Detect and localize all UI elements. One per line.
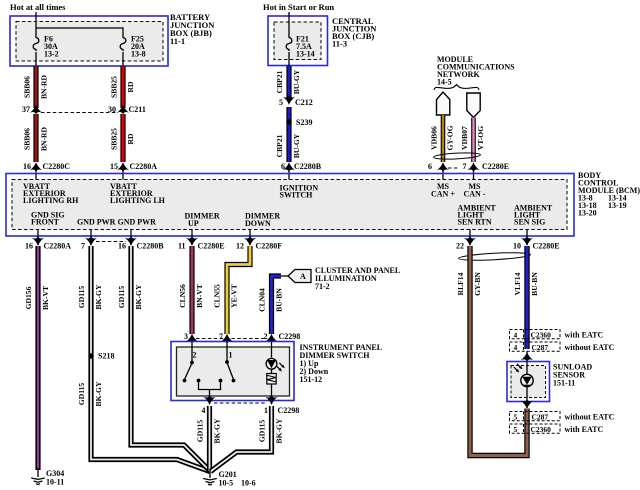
svg-text:BK-GY: BK-GY bbox=[94, 284, 103, 309]
wire to G304 bbox=[37, 468, 39, 477]
wire stub into BCM pin16 bbox=[35, 170, 37, 180]
svg-text:BK-VT: BK-VT bbox=[41, 286, 50, 310]
wire VLF14 BU-BN bbox=[524, 246, 529, 349]
svg-text:C212: C212 bbox=[295, 98, 313, 107]
central junction box (CJB) outer bbox=[268, 16, 328, 66]
stub pin4 bbox=[209, 396, 211, 404]
wire GD115 BK-GY a bbox=[91, 246, 210, 472]
svg-text:S239: S239 bbox=[296, 118, 312, 127]
svg-text:VT-OG: VT-OG bbox=[476, 126, 485, 150]
svg-text:C2280E: C2280E bbox=[198, 242, 225, 251]
svg-text:16: 16 bbox=[118, 242, 126, 251]
svg-text:13-2: 13-2 bbox=[44, 50, 59, 59]
wire resistor to pin1 bbox=[271, 384, 273, 396]
svg-text:4: 4 bbox=[514, 330, 518, 339]
svg-text:1: 1 bbox=[264, 406, 268, 415]
svg-text:7: 7 bbox=[81, 242, 85, 251]
connector C2280B dashed line bottom bbox=[96, 241, 126, 243]
connector arrow C2280C bbox=[30, 162, 42, 172]
brace bbox=[434, 85, 479, 91]
svg-text:FRONT: FRONT bbox=[31, 218, 60, 227]
svg-text:12: 12 bbox=[236, 242, 244, 251]
connector C211 dashed line bbox=[41, 112, 118, 114]
svg-text:11: 11 bbox=[178, 242, 186, 251]
connector arrow C2298 pin1 bbox=[265, 395, 277, 405]
svg-text:GD115: GD115 bbox=[77, 286, 86, 309]
connector arrow bottom DIMMER DOWN bbox=[244, 236, 256, 246]
svg-text:4: 4 bbox=[514, 343, 518, 352]
svg-text:13-19: 13-19 bbox=[608, 201, 627, 210]
svg-text:SEN RTN: SEN RTN bbox=[458, 218, 492, 227]
svg-text:A: A bbox=[300, 272, 306, 281]
svg-text:LIGHTING RH: LIGHTING RH bbox=[23, 196, 79, 205]
svg-text:22: 22 bbox=[456, 242, 464, 251]
wire CLN04 BU-BN bbox=[272, 276, 282, 334]
wire VDB06 GY-OG bbox=[441, 115, 446, 162]
connector C2280E dashed line bbox=[448, 167, 459, 169]
wire to G201 bbox=[209, 470, 211, 478]
wire into sunload sensor bbox=[526, 351, 528, 361]
connector arrow C2298 pin3 bbox=[186, 334, 198, 344]
wire stub BCM bottom GND PWR1 bbox=[90, 230, 92, 246]
svg-text:SBB06: SBB06 bbox=[23, 128, 32, 150]
wire SBB25 RD upper bbox=[120, 66, 125, 108]
network connector VDB06 bbox=[437, 92, 450, 115]
wire below F25 bbox=[122, 52, 124, 66]
svg-text:RD: RD bbox=[126, 133, 135, 144]
wire lamp to resistor bbox=[271, 369, 273, 373]
svg-text:Hot in Start or Run: Hot in Start or Run bbox=[263, 2, 334, 12]
connector A cluster illumination bbox=[288, 270, 311, 283]
lead to illumination connector bbox=[281, 275, 288, 277]
svg-text:without EATC: without EATC bbox=[565, 343, 615, 352]
svg-text:151-12: 151-12 bbox=[300, 375, 323, 384]
svg-text:10: 10 bbox=[513, 242, 521, 251]
connector box 5 C2360 bbox=[510, 424, 561, 433]
wire stub BCM bottom AMB SIG bbox=[526, 230, 528, 246]
connector arrow C211 left bbox=[30, 105, 42, 115]
svg-text:6: 6 bbox=[428, 162, 432, 171]
connector arrow C212 bbox=[283, 95, 295, 105]
connector arrow bottom DIMMER UP bbox=[186, 236, 198, 246]
svg-text:VDB06: VDB06 bbox=[430, 126, 439, 150]
svg-text:3: 3 bbox=[184, 332, 188, 341]
svg-text:5: 5 bbox=[279, 98, 283, 107]
sunload sensor outer bbox=[507, 362, 550, 402]
svg-text:4: 4 bbox=[202, 406, 206, 415]
splice S239 bbox=[286, 119, 291, 124]
connector box 4 C287 bbox=[510, 342, 561, 351]
svg-text:C2280E: C2280E bbox=[533, 242, 560, 251]
svg-text:GND PWR: GND PWR bbox=[77, 218, 116, 227]
svg-text:DOWN: DOWN bbox=[245, 219, 271, 228]
svg-text:BK-GY: BK-GY bbox=[134, 284, 143, 309]
wire CBP21 BU-GY lower bbox=[286, 107, 291, 162]
connector arrow sunload top bbox=[521, 352, 533, 362]
wire stub BCM bottom GND PWR2 bbox=[130, 230, 132, 246]
wire stub into BCM pin15 bbox=[122, 170, 124, 180]
connector arrow bottom GND SIG bbox=[32, 236, 44, 246]
twisted pair ellipse ambient bbox=[458, 251, 530, 261]
wire sensor top bbox=[526, 362, 528, 375]
svg-text:C287: C287 bbox=[532, 412, 549, 421]
svg-text:CLN04: CLN04 bbox=[258, 288, 267, 312]
svg-text:16: 16 bbox=[25, 242, 33, 251]
svg-text:11-3: 11-3 bbox=[332, 39, 347, 49]
svg-text:BK-GY: BK-GY bbox=[275, 418, 284, 443]
wire below sensor bbox=[526, 402, 528, 409]
svg-text:7: 7 bbox=[219, 332, 223, 341]
wire stub BCM bottom GND SIG bbox=[37, 230, 39, 246]
svg-text:GND PWR: GND PWR bbox=[118, 218, 157, 227]
wire into lamp bbox=[271, 342, 273, 358]
wire SBB25 RD lower bbox=[120, 114, 125, 162]
svg-text:C287: C287 bbox=[532, 343, 549, 352]
svg-text:13-14: 13-14 bbox=[296, 50, 315, 59]
svg-text:C211: C211 bbox=[129, 105, 146, 114]
svg-text:C2360: C2360 bbox=[531, 330, 552, 339]
svg-text:C2360: C2360 bbox=[531, 425, 552, 434]
wire VDB07 VT-OG bbox=[471, 118, 476, 163]
svg-text:C2280A: C2280A bbox=[44, 242, 72, 251]
bracket path bbox=[199, 382, 221, 390]
svg-text:SWITCH: SWITCH bbox=[280, 191, 314, 200]
svg-text:14-5: 14-5 bbox=[437, 78, 452, 87]
svg-text:10-11: 10-11 bbox=[46, 478, 64, 487]
fuse F21 7.5A bbox=[286, 36, 292, 51]
svg-text:VLF14: VLF14 bbox=[513, 272, 522, 295]
svg-text:C2298: C2298 bbox=[279, 332, 301, 341]
svg-text:SEN SIG: SEN SIG bbox=[514, 218, 545, 227]
central junction box (CJB) inner dashed bbox=[274, 22, 321, 60]
svg-text:5: 5 bbox=[514, 412, 518, 421]
wire feed into BJB bbox=[35, 12, 37, 36]
svg-text:RLF14: RLF14 bbox=[456, 272, 465, 295]
svg-text:SBB25: SBB25 bbox=[110, 128, 119, 150]
connector arrow C211 right bbox=[117, 105, 129, 115]
svg-text:YE-VT: YE-VT bbox=[230, 284, 239, 308]
wire CBP21 BU-GY upper bbox=[286, 66, 291, 98]
svg-text:with EATC: with EATC bbox=[565, 425, 604, 434]
svg-text:10-6: 10-6 bbox=[241, 479, 256, 488]
connector arrow C2280E pin7 bbox=[467, 162, 479, 172]
svg-text:C2298: C2298 bbox=[278, 406, 300, 415]
wire GD115 BK-GY d bbox=[211, 406, 272, 472]
connector arrow bottom GND PWR1 bbox=[85, 236, 97, 246]
instrument panel dimmer switch inner bbox=[177, 347, 290, 396]
splice S218 bbox=[88, 353, 93, 358]
svg-text:30: 30 bbox=[108, 105, 116, 114]
wire RLF14 GY-BN bbox=[470, 246, 527, 456]
switch down contact bbox=[225, 360, 229, 364]
svg-text:BU-GY: BU-GY bbox=[292, 133, 301, 158]
svg-text:S218: S218 bbox=[98, 352, 114, 361]
wire stub CAN+ into BCM bbox=[442, 170, 444, 180]
body control module (BCM) outer bbox=[6, 174, 574, 237]
svg-text:C2280B: C2280B bbox=[294, 162, 322, 171]
wire GD156 BK-VT bbox=[35, 246, 40, 470]
svg-text:GD115: GD115 bbox=[77, 383, 86, 406]
battery junction box (BJB) inner dashed bbox=[16, 22, 163, 62]
svg-text:RD: RD bbox=[126, 81, 135, 92]
wire stub BCM bottom AMB RTN bbox=[469, 230, 471, 246]
svg-text:UP: UP bbox=[188, 219, 199, 228]
network connector VDB07 bbox=[467, 93, 480, 118]
svg-text:without EATC: without EATC bbox=[565, 413, 615, 422]
connector arrow sunload bottom bbox=[521, 399, 533, 409]
svg-text:CLN56: CLN56 bbox=[178, 284, 187, 308]
wire SBB06 BN-RD upper bbox=[33, 66, 38, 108]
svg-text:GY-BN: GY-BN bbox=[473, 272, 482, 296]
svg-text:BN-RD: BN-RD bbox=[39, 74, 48, 99]
svg-text:BU-BN: BU-BN bbox=[530, 272, 539, 296]
common bracket bbox=[197, 379, 201, 383]
wire BJB branch bbox=[36, 28, 123, 36]
wire stub CAN- into BCM bbox=[473, 170, 475, 180]
svg-text:2: 2 bbox=[264, 332, 268, 341]
svg-text:CAN +: CAN + bbox=[431, 190, 455, 199]
wire below F6 bbox=[35, 52, 37, 66]
svg-text:10-5: 10-5 bbox=[219, 479, 234, 488]
fuse F6 30A bbox=[33, 36, 39, 51]
wire GD115 BK-GY c bbox=[207, 406, 212, 471]
svg-text:VDB07: VDB07 bbox=[460, 126, 469, 150]
svg-text:GY-OG: GY-OG bbox=[446, 125, 455, 150]
svg-text:C2280B: C2280B bbox=[137, 242, 165, 251]
svg-text:13-8: 13-8 bbox=[131, 50, 146, 59]
svg-text:15: 15 bbox=[110, 162, 118, 171]
fuse F25 20A bbox=[120, 36, 126, 51]
connector arrow bottom AMB SIG bbox=[521, 236, 533, 246]
svg-text:CAN -: CAN - bbox=[464, 190, 486, 199]
connector box 5 C287 bbox=[510, 412, 561, 421]
svg-text:16: 16 bbox=[23, 162, 31, 171]
svg-text:11-1: 11-1 bbox=[170, 36, 185, 46]
wire sensor bottom bbox=[526, 387, 528, 402]
svg-text:GD115: GD115 bbox=[258, 420, 267, 443]
stub pin1 bbox=[271, 396, 273, 404]
svg-text:BN-VT: BN-VT bbox=[195, 284, 204, 308]
svg-text:LIGHTING LH: LIGHTING LH bbox=[110, 196, 166, 205]
instrument panel dimmer switch outer bbox=[171, 342, 294, 401]
connector arrow C2280E pin6 bbox=[437, 162, 449, 172]
svg-text:SBB06: SBB06 bbox=[23, 76, 32, 98]
svg-text:1: 1 bbox=[229, 351, 233, 360]
wire stub BCM bottom DIMMER UP bbox=[191, 230, 193, 246]
svg-text:GD156: GD156 bbox=[24, 286, 33, 309]
svg-text:BU-BN: BU-BN bbox=[275, 288, 284, 312]
wire stub BCM bottom DIMMER DOWN bbox=[249, 230, 251, 246]
svg-text:37: 37 bbox=[22, 105, 30, 114]
connector arrow C2280B bbox=[283, 162, 295, 172]
svg-text:2: 2 bbox=[193, 351, 197, 360]
svg-text:GD115: GD115 bbox=[196, 420, 205, 443]
svg-text:C2280C: C2280C bbox=[43, 162, 71, 171]
svg-text:CBP21: CBP21 bbox=[275, 134, 284, 157]
ground G304 bbox=[31, 478, 45, 485]
wire feed into CJB bbox=[288, 12, 290, 36]
wire into switch up bbox=[191, 342, 193, 363]
connector C2298 dashed line top bbox=[196, 338, 267, 340]
svg-text:BU-GY: BU-GY bbox=[292, 69, 301, 94]
svg-text:CLN55: CLN55 bbox=[213, 284, 222, 308]
svg-text:C2280A: C2280A bbox=[130, 162, 158, 171]
ground G201 bbox=[203, 479, 217, 486]
svg-text:C2280F: C2280F bbox=[256, 242, 283, 251]
svg-text:5: 5 bbox=[514, 425, 518, 434]
wire CLN55 YE-VT bbox=[227, 246, 250, 334]
svg-text:CBP21: CBP21 bbox=[275, 70, 284, 93]
connector C2298 dashed line bottom bbox=[214, 402, 266, 404]
bracket stub down bbox=[209, 390, 211, 397]
body control module (BCM) inner dashed bbox=[12, 180, 567, 230]
twisted pair ellipse CAN bbox=[433, 152, 480, 160]
svg-text:BN-RD: BN-RD bbox=[39, 126, 48, 151]
wire CLN56 BN-VT bbox=[189, 246, 194, 334]
svg-text:BK-GY: BK-GY bbox=[213, 418, 222, 443]
svg-text:7: 7 bbox=[463, 162, 467, 171]
wire GD115 BK-GY b bbox=[131, 246, 210, 471]
svg-text:151-11: 151-11 bbox=[553, 379, 575, 388]
svg-text:Hot at all times: Hot at all times bbox=[10, 2, 66, 12]
battery junction box (BJB) outer bbox=[10, 16, 168, 66]
connector arrow C2280A bbox=[117, 162, 129, 172]
wire into switch down bbox=[226, 342, 228, 363]
switch up contact bbox=[190, 361, 194, 365]
wire stub into BCM pin6 bbox=[288, 170, 290, 180]
svg-text:13-20: 13-20 bbox=[578, 209, 597, 218]
svg-text:C2280E: C2280E bbox=[482, 162, 509, 171]
wire below F21 bbox=[288, 52, 290, 66]
svg-text:with EATC: with EATC bbox=[565, 331, 604, 340]
svg-text:BK-GY: BK-GY bbox=[94, 381, 103, 406]
connector arrow C2298 pin2 bbox=[265, 334, 277, 344]
connector arrow bottom GND PWR2 bbox=[125, 236, 137, 246]
sunload sensor inner dashed bbox=[511, 366, 546, 398]
svg-text:71-2: 71-2 bbox=[315, 282, 330, 291]
wire SBB06 BN-RD lower bbox=[33, 114, 38, 162]
svg-text:GD115: GD115 bbox=[117, 286, 126, 309]
connector arrow bottom AMB RTN bbox=[464, 236, 476, 246]
connector box 4 C2360 bbox=[510, 330, 561, 339]
connector arrow C2298 pin7 bbox=[221, 334, 233, 344]
svg-text:SBB25: SBB25 bbox=[110, 76, 119, 98]
connector arrow C2298 pin4 bbox=[203, 395, 215, 405]
